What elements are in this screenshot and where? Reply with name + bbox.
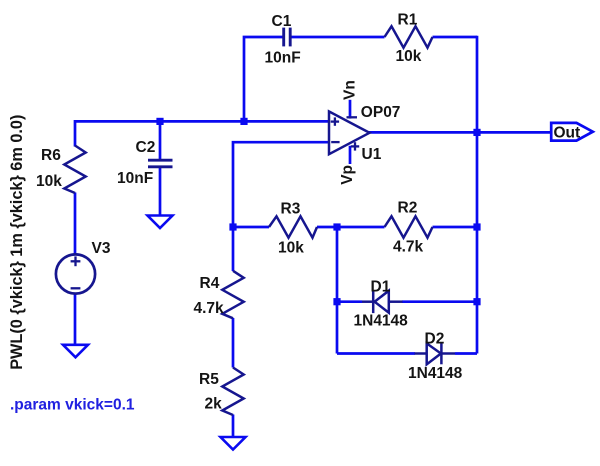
svg-text:10nF: 10nF: [265, 49, 301, 66]
resistor R6 body: [64, 146, 85, 194]
svg-text:C2: C2: [136, 139, 156, 156]
svg-text:V3: V3: [92, 240, 111, 257]
diode D1 body (pointing left, cathode bar left): [362, 290, 403, 313]
svg-text:4.7k: 4.7k: [194, 300, 225, 317]
resistor R2 body: [385, 216, 433, 237]
svg-text:Vp: Vp: [339, 165, 356, 185]
svg-text:U1: U1: [362, 146, 382, 163]
op-amp U1 + input mark: [331, 117, 339, 125]
svg-text:D1: D1: [371, 278, 391, 295]
op-amp U1 Vn power pin wire: [349, 100, 352, 119]
wire: R3 left lead: [233, 226, 269, 229]
wire: right vertical rail x=477 from top corner to D2 row: [476, 36, 479, 354]
wire: D2 left lead: [337, 352, 415, 355]
wire: R3 to R2 segment: [317, 226, 385, 229]
svg-text:R2: R2: [398, 200, 418, 217]
wire: output net from op-amp to Out port: [369, 131, 552, 134]
junction at R3/R2 node: [333, 223, 340, 230]
junction at D1 right rail: [473, 298, 480, 305]
svg-text:.param vkick=0.1: .param vkick=0.1: [10, 396, 135, 413]
resistor R4 body: [222, 271, 243, 319]
svg-text:OP07: OP07: [361, 104, 401, 121]
wire: top feedback net C1 to R1 (291,37)-(384,37): [291, 36, 384, 39]
svg-text:10k: 10k: [278, 240, 304, 257]
ground symbol at R5: [221, 437, 246, 450]
ground symbol at C2: [148, 216, 173, 229]
wire: V3 bottom lead to ground: [74, 293, 77, 345]
svg-text:4.7k: 4.7k: [393, 239, 424, 256]
svg-text:R1: R1: [398, 11, 418, 28]
wire: R4 to R5 segment: [232, 318, 235, 368]
capacitor C2 body: [148, 160, 173, 167]
resistor R3 body: [269, 216, 317, 237]
svg-text:R4: R4: [200, 275, 220, 292]
svg-text:10nF: 10nF: [117, 170, 153, 187]
svg-text:10k: 10k: [396, 48, 422, 65]
junction at C2 tap: [156, 118, 163, 125]
svg-text:D2: D2: [425, 330, 445, 347]
op-amp U1 triangle: [329, 111, 370, 154]
junction at output node: [473, 129, 480, 136]
svg-text:R3: R3: [281, 201, 301, 218]
junction at feedback tap: [240, 118, 247, 125]
wire: R2 right lead to rail: [433, 226, 478, 229]
capacitor C1 body: [284, 28, 291, 47]
wire: middle vertical x=337 from R3/R2 node down to D2 row: [336, 227, 339, 354]
wire: top feedback net R1 to right rail corner (432,37)-(477,37): [433, 36, 478, 39]
wire: D1 left lead: [337, 300, 362, 303]
wire: R6 bottom lead to V3 top: [74, 193, 77, 256]
svg-text:PWL(0 {vkick} 1m {vkick} 6m 0.: PWL(0 {vkick} 1m {vkick} 6m 0.0): [8, 115, 26, 370]
diode D2 body (pointing right, cathode bar right): [415, 343, 456, 365]
svg-text:R6: R6: [41, 147, 61, 164]
svg-text:2k: 2k: [205, 396, 223, 413]
svg-text:C1: C1: [272, 13, 292, 30]
resistor R1 body: [385, 26, 433, 47]
op-amp U1 - input mark: [331, 141, 339, 143]
wire: C2 top lead from junction: [159, 121, 162, 159]
node Out port flag: [551, 123, 593, 141]
wire: main input net horizontal y=121.4 from R6 corner to op-amp + input: [75, 121, 331, 146]
svg-text:Out: Out: [554, 125, 581, 142]
junction at R2 right rail: [473, 223, 480, 230]
svg-text:R5: R5: [199, 371, 219, 388]
svg-text:1N4148: 1N4148: [354, 313, 409, 330]
junction at R3/R4 node: [229, 223, 236, 230]
wire: op-amp inverting input net (329,142)-(233,142)-(233,227): [233, 142, 331, 227]
svg-text:Vn: Vn: [342, 80, 359, 100]
op-amp U1 Vp power pin wire: [349, 146, 352, 164]
op-amp U1 positive supply mark: [351, 142, 359, 150]
svg-text:1N4148: 1N4148: [408, 365, 463, 382]
wire: R5 bottom lead to ground: [232, 415, 235, 438]
svg-text:10k: 10k: [36, 173, 62, 190]
wire: D1 right lead: [402, 300, 477, 303]
wire: top feedback net left segment (244,121)-(244,37)-(282,37): [244, 37, 283, 121]
voltage source V3 body: [56, 254, 95, 293]
wire: D2 right lead: [455, 352, 477, 355]
wire: R4 top lead: [232, 227, 235, 271]
ground symbol at V3: [63, 345, 88, 358]
op-amp U1 negative supply tick: [347, 116, 358, 118]
wire: C2 bottom lead to ground: [159, 168, 162, 216]
junction at D1 left: [333, 298, 340, 305]
resistor R5 body: [222, 368, 243, 416]
